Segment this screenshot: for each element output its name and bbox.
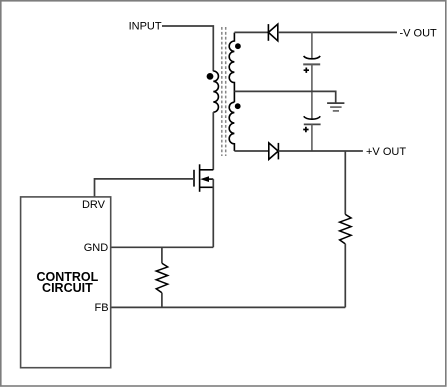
wire +V OUT down to resistor R2: [344, 151, 346, 214]
resistor R1: [156, 263, 168, 293]
wire secondary1 top to diode D1: [234, 31, 268, 33]
diode D2 (anode left, +V OUT rectifier): [269, 143, 279, 160]
resistor R1 leads: [161, 247, 163, 263]
wire input to primary top: [162, 26, 213, 71]
wire C1 to center node: [311, 64, 313, 119]
MOSFET body arrow: [200, 176, 209, 182]
wire drain to primary bottom: [212, 112, 214, 170]
wire D1 to -V OUT terminal: [278, 31, 397, 33]
ground: [327, 103, 344, 111]
diode D1 (cathode left, -V OUT rectifier): [268, 24, 277, 41]
svg-text:INPUT: INPUT: [129, 21, 162, 33]
wire R2 down to FB rail: [344, 244, 346, 307]
wire GND rail: [111, 246, 214, 248]
svg-text:+V OUT: +V OUT: [366, 146, 406, 158]
wire FB rail: [111, 306, 346, 308]
control circuit box U1: [21, 197, 111, 368]
wire center tap to ground: [234, 91, 335, 102]
capacitor C1 (polarized, + toward ground): [303, 56, 320, 73]
wire R1 down to FB rail: [161, 293, 163, 308]
secondary 2 phasing dot: [235, 103, 241, 109]
transformer T1 primary winding: [213, 71, 218, 112]
transformer secondary 2 winding: [229, 102, 234, 151]
wire source to GND rail: [212, 179, 214, 247]
primary phasing dot: [207, 73, 214, 80]
secondary 1 phasing dot: [235, 43, 241, 49]
wire DRV to gate: [95, 179, 195, 197]
svg-text:-V OUT: -V OUT: [400, 28, 438, 40]
wire C2 to +V OUT rail: [311, 124, 313, 151]
svg-text:GND: GND: [84, 242, 109, 254]
resistor R2: [340, 214, 352, 244]
capacitor C2 (polarized, + toward +V OUT): [303, 116, 320, 132]
transformer secondary 1 winding: [229, 33, 234, 103]
svg-text:FB: FB: [95, 302, 109, 314]
wire -V OUT rail down to capacitor C1: [311, 32, 313, 59]
transformer core: [221, 27, 223, 156]
svg-text:CIRCUIT: CIRCUIT: [42, 281, 93, 295]
wire D2 to +V OUT terminal: [278, 150, 363, 152]
wire secondary2 bottom to diode D2: [234, 150, 268, 152]
svg-text:DRV: DRV: [82, 199, 106, 211]
MOSFET Q1: [194, 164, 213, 192]
